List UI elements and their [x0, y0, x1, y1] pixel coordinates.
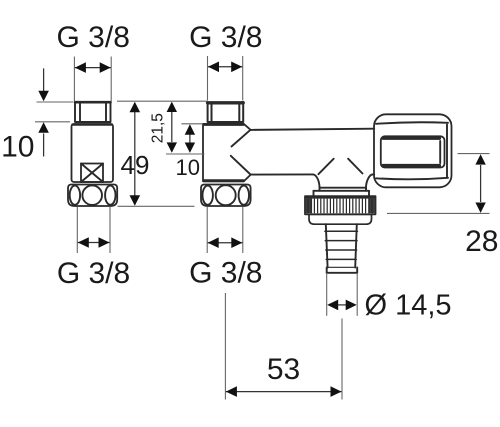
svg-text:10: 10	[1, 130, 34, 163]
svg-text:G 3/8: G 3/8	[57, 257, 130, 290]
svg-text:49: 49	[121, 150, 150, 180]
svg-text:G 3/8: G 3/8	[57, 21, 130, 54]
svg-text:53: 53	[267, 353, 300, 386]
svg-text:21,5: 21,5	[149, 113, 166, 143]
svg-text:G 3/8: G 3/8	[189, 21, 262, 54]
svg-text:Ø 14,5: Ø 14,5	[365, 290, 452, 322]
svg-text:10: 10	[176, 155, 200, 180]
svg-text:G 3/8: G 3/8	[189, 257, 262, 290]
svg-text:28: 28	[465, 225, 498, 258]
